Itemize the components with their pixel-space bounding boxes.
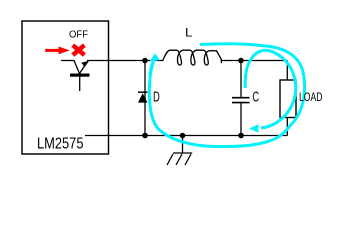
- collector lead: [61, 61, 80, 74]
- node at capacitor bottom: [238, 133, 244, 139]
- transistor bar: [70, 74, 90, 77]
- wire: bottom rail: [85, 135, 287, 137]
- IC box LM2575: [22, 21, 109, 154]
- coil end tick: [220, 60, 222, 64]
- current loop outer arrowhead (at diode junction): [149, 53, 160, 61]
- current loop inner arrowhead (pointing left along bottom): [249, 124, 259, 132]
- wire: LOAD top drop: [286, 61, 288, 81]
- wire: capacitor bottom branch: [240, 103, 242, 136]
- svg-text:L: L: [185, 25, 193, 39]
- wire: emitter to top rail: [87, 60, 164, 62]
- wire: LOAD bottom drop: [286, 118, 288, 136]
- ground: [167, 136, 192, 166]
- diode D: [138, 92, 148, 102]
- svg-text:LM2575: LM2575: [37, 136, 84, 153]
- node at ground: [180, 133, 186, 139]
- inductor L (coil): [163, 50, 222, 65]
- node at diode top: [142, 58, 148, 64]
- wire: diode branch vertical: [144, 61, 146, 136]
- svg-text:OFF: OFF: [69, 30, 88, 41]
- emitter diagonal: [80, 62, 88, 74]
- transistor emitter arrowhead: [81, 61, 89, 67]
- svg-text:LOAD: LOAD: [299, 92, 323, 104]
- wire: top rail from coil to LOAD corner: [221, 60, 287, 62]
- wire: capacitor top branch: [240, 61, 242, 98]
- current loop inner (through C and LOAD): [245, 50, 296, 128]
- current loop outer (through D and L): [149, 44, 304, 147]
- red X (switch OFF): [73, 45, 85, 55]
- node at diode bottom: [142, 133, 148, 139]
- base stub down: [79, 77, 81, 92]
- red arrow (base drive): [45, 47, 69, 55]
- node at capacitor top: [238, 58, 244, 64]
- capacitor C: [232, 98, 250, 103]
- svg-text:C: C: [252, 88, 259, 105]
- svg-text:D: D: [153, 88, 160, 105]
- transistor Q (internal switch): [61, 61, 88, 92]
- LOAD box: [280, 80, 296, 118]
